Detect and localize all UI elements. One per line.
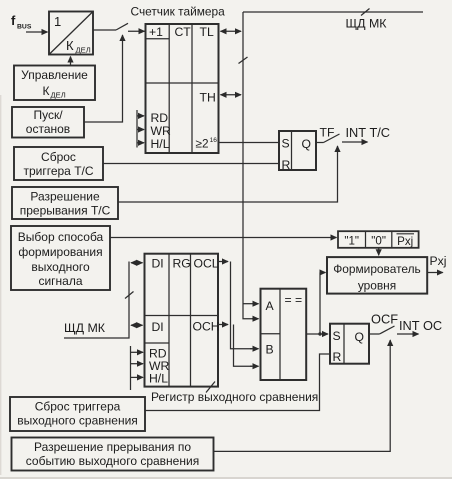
wire TL bidirectional <box>221 30 242 32</box>
register DI cell bottom <box>145 342 170 344</box>
svg-text:прерывания Т/С: прерывания Т/С <box>20 204 111 218</box>
svg-text:К: К <box>43 84 50 98</box>
wire TF Q output <box>316 142 324 144</box>
svg-text:Разрешение прерывания по: Разрешение прерывания по <box>34 440 191 454</box>
svg-text:Формирователь: Формирователь <box>333 262 421 276</box>
wire data bus vertical to comparator A <box>243 12 258 319</box>
box Управление Кдел <box>14 66 95 101</box>
svg-text:INT Т/С: INT Т/С <box>346 125 391 140</box>
pointer tick to register label <box>206 382 215 393</box>
wire DI bidirectional top <box>131 262 143 264</box>
divider (prescaler) box <box>49 12 93 55</box>
wire TH bidirectional <box>221 94 242 96</box>
svg-text:выходного: выходного <box>31 260 90 274</box>
register horizontal divider <box>145 315 219 317</box>
svg-text:R: R <box>282 158 291 172</box>
wire H/L arrow <box>137 142 144 144</box>
wire mode cells to level former (down arrow) <box>378 248 380 255</box>
counter block CT <box>146 24 219 153</box>
wire comparator output to S of OCF <box>306 333 328 335</box>
svg-text:ЩД МК: ЩД МК <box>64 321 106 335</box>
svg-text:Сброс: Сброс <box>41 150 76 164</box>
svg-text:формирования: формирования <box>18 245 102 259</box>
wire fBUS input arrow <box>26 31 48 33</box>
svg-text:сигнала: сигнала <box>38 274 82 288</box>
wire WR arrow <box>137 129 144 131</box>
label OCF <box>371 312 398 327</box>
wire OCL to comparator B <box>231 262 253 349</box>
svg-text:событию выходного сравнения: событию выходного сравнения <box>26 454 199 468</box>
box Разрешение прерывания по событию выходного сравнения <box>12 438 214 471</box>
svg-text:TH: TH <box>200 91 216 105</box>
wire mode select to mode cells <box>110 237 337 239</box>
wire register control feed <box>130 346 132 390</box>
svg-text:A: A <box>266 299 275 313</box>
svg-text:f: f <box>11 13 16 28</box>
wire R of OCF from reset box <box>145 354 330 411</box>
box Выбор способа формирования выходного сигнала <box>11 226 110 290</box>
register block RG (output compare register) <box>145 254 219 387</box>
label INT Т/С <box>346 125 391 140</box>
svg-text:INT OC: INT OC <box>399 318 442 333</box>
node fBUS label <box>11 13 32 31</box>
wire RD arrow <box>137 115 144 117</box>
svg-text:уровня: уровня <box>358 279 396 293</box>
register column divider 1 <box>168 254 170 387</box>
wire overflow to S of TF <box>219 142 280 144</box>
switch blade TF interrupt gate <box>324 134 340 143</box>
svg-text:ДЕЛ: ДЕЛ <box>76 46 91 55</box>
svg-text:1: 1 <box>54 14 61 29</box>
wire register WR arrow <box>131 363 144 365</box>
counter cell +1 <box>146 38 170 40</box>
wire OCF Q output <box>369 333 380 335</box>
wire divider output <box>93 29 116 31</box>
svg-text:TF: TF <box>320 126 335 140</box>
wire level former output arrow <box>427 272 443 274</box>
switch blade OC interrupt gate <box>380 326 395 334</box>
svg-text:DI: DI <box>152 320 164 334</box>
svg-text:DI: DI <box>152 257 164 271</box>
counter column divider 1 <box>168 24 170 153</box>
svg-text:BUS: BUS <box>17 24 32 31</box>
svg-text:R: R <box>333 350 342 364</box>
svg-text:Регистр выходного сравнения: Регистр выходного сравнения <box>151 390 318 404</box>
svg-text:OCH: OCH <box>193 320 220 334</box>
wire register H/L arrow <box>131 376 144 378</box>
svg-text:S: S <box>333 329 341 343</box>
svg-text:Выбор способа: Выбор способа <box>18 230 104 244</box>
svg-text:16: 16 <box>210 137 218 144</box>
svg-text:H/L: H/L <box>151 137 170 151</box>
svg-text:Q: Q <box>302 137 311 151</box>
svg-text:= =: = = <box>285 293 303 307</box>
svg-text:OCF: OCF <box>371 312 398 327</box>
svg-text:К: К <box>66 38 74 53</box>
label ЩД МК top <box>346 17 388 31</box>
svg-text:Pxj: Pxj <box>430 254 447 268</box>
wire Управление to divider (up arrow) <box>70 57 72 66</box>
svg-text:Управление: Управление <box>21 68 88 82</box>
svg-text:Разрешение: Разрешение <box>30 190 100 204</box>
svg-text:RG: RG <box>173 257 191 271</box>
wire into +1 <box>128 30 145 32</box>
svg-text:Счетчик таймера: Счетчик таймера <box>131 5 226 19</box>
wire register RD arrow <box>131 351 144 353</box>
wire OC interrupt enable <box>214 341 391 451</box>
comparator block == <box>261 289 307 380</box>
svg-text:≥2: ≥2 <box>196 137 209 151</box>
wire comparator to level former input <box>320 272 326 274</box>
bus slash on ЩД МК <box>361 9 370 16</box>
register column divider 2 <box>190 254 192 387</box>
svg-text:ДЕЛ: ДЕЛ <box>51 91 66 100</box>
counter column divider 2 <box>191 24 193 153</box>
wire INT OC arrow <box>397 333 419 335</box>
box Пуск/останов <box>12 107 84 138</box>
svg-text:WR: WR <box>151 124 172 138</box>
wire vertical from compare node up <box>319 273 321 335</box>
switch blade (clock gate) <box>116 23 128 30</box>
svg-text:Пуск/: Пуск/ <box>33 108 63 122</box>
wire OCH to comparator B <box>234 325 253 367</box>
svg-text:H/L: H/L <box>149 372 168 386</box>
wire counter control feed <box>136 110 138 148</box>
wire OCL output <box>218 261 228 263</box>
svg-text:Q: Q <box>355 330 364 344</box>
svg-text:ЩД МК: ЩД МК <box>346 17 388 31</box>
svg-text:выходного сравнения: выходного сравнения <box>17 414 138 428</box>
box Разрешение прерывания Т/С <box>12 187 118 219</box>
bus slash on register bus <box>125 292 134 299</box>
svg-text:+1: +1 <box>149 25 163 39</box>
wire interrupt enable T/C <box>118 147 338 202</box>
junction node compare output <box>318 332 321 335</box>
scan shading bottom edge <box>0 477 452 479</box>
wire A input 1 <box>243 303 259 305</box>
label Счетчик таймера <box>131 5 226 19</box>
wire Сброс триггера Т/С to R of TF <box>103 163 279 165</box>
svg-text:RD: RD <box>151 111 169 125</box>
scan shading left edge <box>0 95 1 475</box>
svg-text:TL: TL <box>200 25 214 39</box>
label Pxj output <box>430 254 447 268</box>
svg-text:"1": "1" <box>344 235 359 248</box>
svg-text:CT: CT <box>175 25 192 39</box>
label INT OC <box>399 318 442 333</box>
svg-text:"0": "0" <box>371 235 386 248</box>
svg-text:Pxj: Pxj <box>397 235 413 248</box>
svg-text:останов: останов <box>26 122 70 136</box>
overline on Pxj cell <box>397 233 415 235</box>
flip-flop OCF (S R Q) <box>330 324 369 364</box>
wire DI bidirectional bottom <box>131 324 143 326</box>
svg-text:S: S <box>282 137 290 151</box>
mode cells box "1" "0" Pxj <box>338 231 419 248</box>
counter horizontal divider <box>146 82 219 84</box>
label TF <box>320 126 335 140</box>
label Регистр выходного сравнения <box>151 390 318 404</box>
wire data bus into register <box>64 262 129 339</box>
flip-flop TF (S R Q) <box>279 131 316 170</box>
wire Пуск/останов to clock switch <box>84 36 123 122</box>
svg-text:B: B <box>266 343 274 357</box>
wire INT T/C arrow <box>342 141 368 143</box>
box Сброс триггера выходного сравнения <box>10 397 145 431</box>
bus slash on data bus vertical <box>239 57 248 64</box>
svg-text:триггера Т/С: триггера Т/С <box>23 164 93 178</box>
wire data bus ЩД МК top <box>243 11 423 13</box>
label ЩД МК left <box>64 321 106 335</box>
svg-text:OCL: OCL <box>194 257 219 271</box>
svg-text:Сброс триггера: Сброс триггера <box>35 400 121 414</box>
box Формирователь уровня <box>327 257 427 294</box>
wire OCH output <box>218 324 228 326</box>
box Сброс триггера Т/С <box>14 147 103 180</box>
